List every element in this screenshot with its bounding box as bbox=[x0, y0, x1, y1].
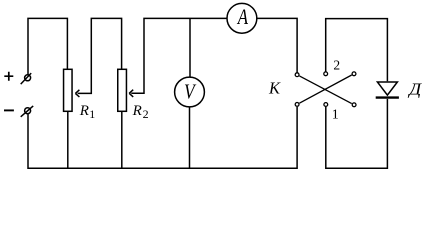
svg-text:Д: Д bbox=[407, 79, 423, 98]
svg-text:V: V bbox=[184, 81, 197, 104]
svg-text:2: 2 bbox=[143, 107, 149, 121]
svg-text:1: 1 bbox=[332, 108, 339, 123]
svg-text:R: R bbox=[79, 103, 89, 119]
svg-text:2: 2 bbox=[333, 57, 340, 72]
svg-text:A: A bbox=[236, 6, 249, 30]
svg-text:R: R bbox=[132, 103, 142, 119]
svg-text:K: K bbox=[268, 79, 281, 98]
svg-text:1: 1 bbox=[89, 107, 95, 121]
